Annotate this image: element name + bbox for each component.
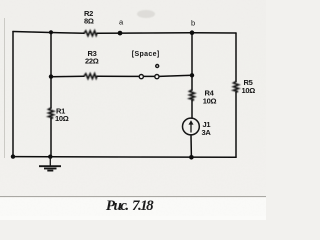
- svg-text:8Ω: 8Ω: [84, 17, 94, 26]
- svg-text:3A: 3A: [202, 128, 212, 137]
- svg-text:10Ω: 10Ω: [242, 86, 256, 95]
- svg-text:22Ω: 22Ω: [85, 57, 99, 66]
- svg-text:b: b: [191, 18, 195, 27]
- svg-text:10Ω: 10Ω: [55, 114, 69, 123]
- svg-text:[Space]: [Space]: [132, 51, 160, 58]
- svg-text:10Ω: 10Ω: [203, 97, 217, 106]
